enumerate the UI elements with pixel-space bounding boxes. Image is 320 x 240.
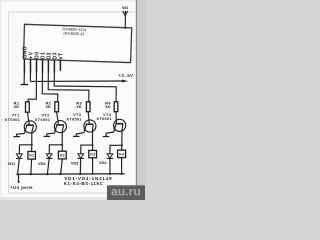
paper sheet [2,2,137,198]
watermark au.ru band [107,185,145,200]
wire VT4 collector to relay K4 [121,145,123,150]
wire GND pin down [23,71,25,84]
wire +V rail to +3..5V arrow [30,80,122,82]
svg-text:VD1: VD1 [8,161,16,166]
wire R1 to base VT1 [27,112,29,125]
node bus dot K2 [59,173,61,175]
svg-text:GND: GND [22,46,28,59]
node bus dot VD1 [16,173,18,175]
ground symbol VT3 [73,135,80,137]
schematic border frame [9,11,135,13]
svg-text:3K: 3K [105,104,111,109]
svg-text:VD3: VD3 [71,161,79,166]
wire VT3 emitter to ground [76,133,84,136]
pin 6 D3 stub [53,60,55,73]
bottom margin band [0,197,137,200]
transistor VT2 [54,121,66,134]
pin 4 D1 stub [42,60,44,73]
transistor VT4 [113,119,125,132]
wire VT2 collector [61,132,63,145]
wire VT1 collector to relay K1 [31,145,33,152]
wire VT4 emitter to ground [106,132,114,136]
wire K3 to bus [92,158,94,174]
node bus dot VD4 [109,173,111,175]
wire VT3 collector to relay K3 [92,145,94,150]
node VT2 collector dot [61,144,63,146]
svg-text:VD2: VD2 [38,161,46,166]
diode VD4 [107,154,113,174]
relay K3 box [89,150,97,157]
svg-text:K3: K3 [90,153,95,157]
svg-text:au.ru: au.ru [111,185,141,199]
svg-text:+3..5V: +3..5V [119,73,134,78]
wire VT4 collector [121,131,123,146]
svg-text:K1: K1 [29,154,34,158]
wire collector VT3 to VD3 [81,145,93,154]
svg-text:3K: 3K [45,104,51,109]
pin 2 +V stub [30,59,32,72]
arrowhead +U relay [17,181,20,183]
resistor R1 [26,102,30,112]
svg-text:КТ6501: КТ6501 [35,118,50,122]
ground symbol VT1 [13,136,20,138]
pin 3 D0 stub [36,59,38,72]
IC U1 module RX480E-4 box [24,24,132,62]
wire VT2 emitter to ground [47,133,55,136]
svg-text:K1-K4-BS-115C: K1-K4-BS-115C [64,181,104,186]
paper right edge dark line [136,0,138,200]
pin 1 GND stub [23,59,25,73]
wire collector VT1 to VD1 [19,145,32,154]
wire D2 to R3 [48,71,89,102]
node bus dot K1 [30,173,32,175]
svg-text:(RX480E-4): (RX480E-4) [63,31,84,37]
photo background [0,0,145,200]
svg-text:3K: 3K [14,104,20,109]
wire +U relay arrow stub [18,174,20,181]
svg-text:КТ6501: КТ6501 [97,117,112,121]
wire D1 to R2 [42,71,57,102]
wire VT3 collector [92,131,94,145]
arrowhead +3..5V [122,80,128,83]
wire +U relay bus [17,173,124,175]
svg-text:3K: 3K [76,104,82,109]
wire K2 to bus [61,159,63,174]
resistor R4 [114,102,118,112]
node bus dot VD3 [79,173,81,175]
relay K2 box [58,151,66,159]
node bus dot K3 [91,173,93,175]
relay K1 box [28,152,36,160]
wire R2 to base VT2 [57,112,59,125]
right margin gray band [137,0,145,200]
node bus dot K4 [120,173,122,175]
ground symbol VT4 [103,136,110,138]
diode VD3 [78,154,84,174]
diode VD2 [46,154,52,174]
transistor VT3 [84,120,96,133]
diode VD1 [16,154,22,174]
wire R3 to base VT3 [88,112,89,125]
wire VT2 collector to relay K2 [61,145,63,151]
relay K4 box [118,150,126,158]
svg-text:K4: K4 [119,152,124,156]
wire collector VT4 to VD4 [110,145,122,154]
wire VT1 emitter to ground [17,134,25,137]
svg-text:VD4: VD4 [99,160,107,165]
antenna W1 symbol [123,11,128,28]
pin 7 VT stub [59,60,61,71]
svg-text:КТ6501: КТ6501 [5,118,20,122]
ground symbol at GND pin [21,84,28,86]
resistor R3 [86,102,90,112]
wire D3 to R4 [54,71,116,102]
wire collector VT2 to VD2 [49,145,62,154]
node antenna junction dot [124,27,126,29]
wire VT1 collector [31,132,33,145]
wire +V pin down [29,71,31,82]
node VT3 collector dot [92,144,94,146]
svg-text:W1: W1 [122,5,129,10]
ground symbol VT2 [44,135,51,137]
svg-text:КТ6501: КТ6501 [67,117,82,121]
svg-text:+Uп реле: +Uп реле [10,185,33,190]
node VT1 collector dot [31,144,33,146]
wire K4 to bus [121,158,123,174]
wire D0 to R1 [28,71,37,102]
wire R4 to base VT4 [115,112,117,124]
svg-text:VT: VT [58,52,64,59]
wire K1 to bus [30,159,33,174]
node bus dot VD2 [46,173,48,175]
resistor R2 [55,102,59,112]
svg-text:K2: K2 [60,154,65,158]
transistor VT1 [24,121,36,134]
pin 5 D2 stub [47,60,49,73]
node VT4 collector dot [121,144,123,146]
